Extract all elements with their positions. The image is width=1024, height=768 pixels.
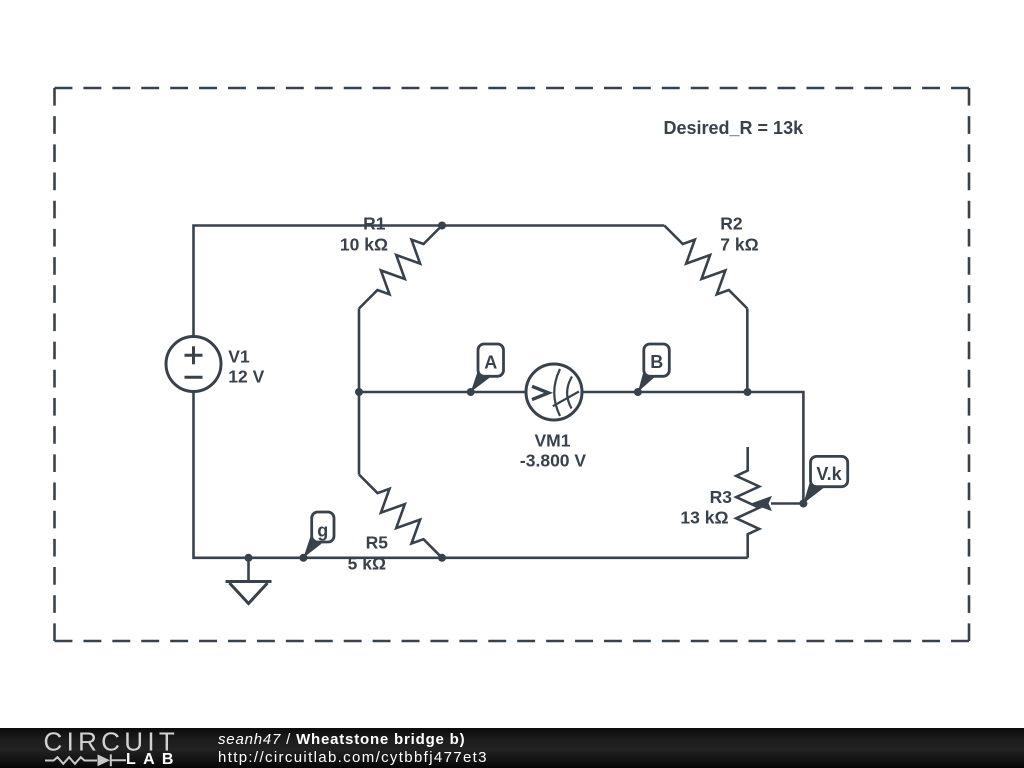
svg-text:13 kΩ: 13 kΩ <box>680 508 728 528</box>
wire R2 bottom vertical <box>746 309 749 393</box>
svg-text:V1: V1 <box>228 346 250 366</box>
footer bar <box>0 728 1024 768</box>
footer text <box>218 731 488 766</box>
node g <box>299 512 334 562</box>
svg-text:12 V: 12 V <box>228 366 264 386</box>
node B <box>634 344 669 396</box>
svg-text:R3: R3 <box>710 487 733 507</box>
voltage source V1 <box>166 337 265 392</box>
voltmeter VM1 <box>520 364 586 471</box>
svg-text:A: A <box>484 353 497 373</box>
wire R5 top vertical <box>358 392 361 475</box>
text Desired_R = 13k <box>664 118 805 138</box>
svg-text:seanh47 / Wheatstone bridge b): seanh47 / Wheatstone bridge b) <box>218 731 465 748</box>
junction dot R2 bottom <box>744 388 752 396</box>
logo CIRCUIT LAB <box>44 727 181 768</box>
svg-text:B: B <box>650 352 663 372</box>
wire top rail <box>194 226 665 337</box>
svg-text:LAB: LAB <box>126 751 181 768</box>
junction dot ground <box>245 554 253 562</box>
junction dot mid-left <box>355 388 363 396</box>
ground <box>226 558 272 604</box>
svg-text:R5: R5 <box>366 532 389 552</box>
svg-text:-3.800 V: -3.800 V <box>520 451 586 471</box>
junction dot R5 bottom <box>438 554 446 562</box>
svg-text:Desired_R = 13k: Desired_R = 13k <box>664 118 805 138</box>
wire left vertical to bottom rail <box>194 392 748 558</box>
resistor R2 <box>664 214 758 309</box>
svg-text:http://circuitlab.com/cytbbfj4: http://circuitlab.com/cytbbfj477et3 <box>218 749 488 766</box>
wire R1 bottom vertical <box>358 309 361 393</box>
svg-text:V.k: V.k <box>816 464 842 484</box>
svg-text:R2: R2 <box>720 214 743 234</box>
svg-text:5 kΩ: 5 kΩ <box>348 553 386 573</box>
wire middle left segment <box>359 391 526 394</box>
svg-text:10 kΩ: 10 kΩ <box>340 235 388 255</box>
svg-text:VM1: VM1 <box>535 431 571 451</box>
resistor R5 <box>348 475 442 574</box>
svg-text:g: g <box>317 521 328 541</box>
potentiometer R3 <box>680 447 771 558</box>
junction dot top R1 <box>438 222 446 230</box>
svg-text:7 kΩ: 7 kΩ <box>720 235 758 255</box>
svg-text:R1: R1 <box>363 214 386 234</box>
wire middle right segment <box>582 392 803 504</box>
node A <box>467 344 504 396</box>
resistor R1 <box>340 214 442 309</box>
node V.k <box>799 456 847 507</box>
